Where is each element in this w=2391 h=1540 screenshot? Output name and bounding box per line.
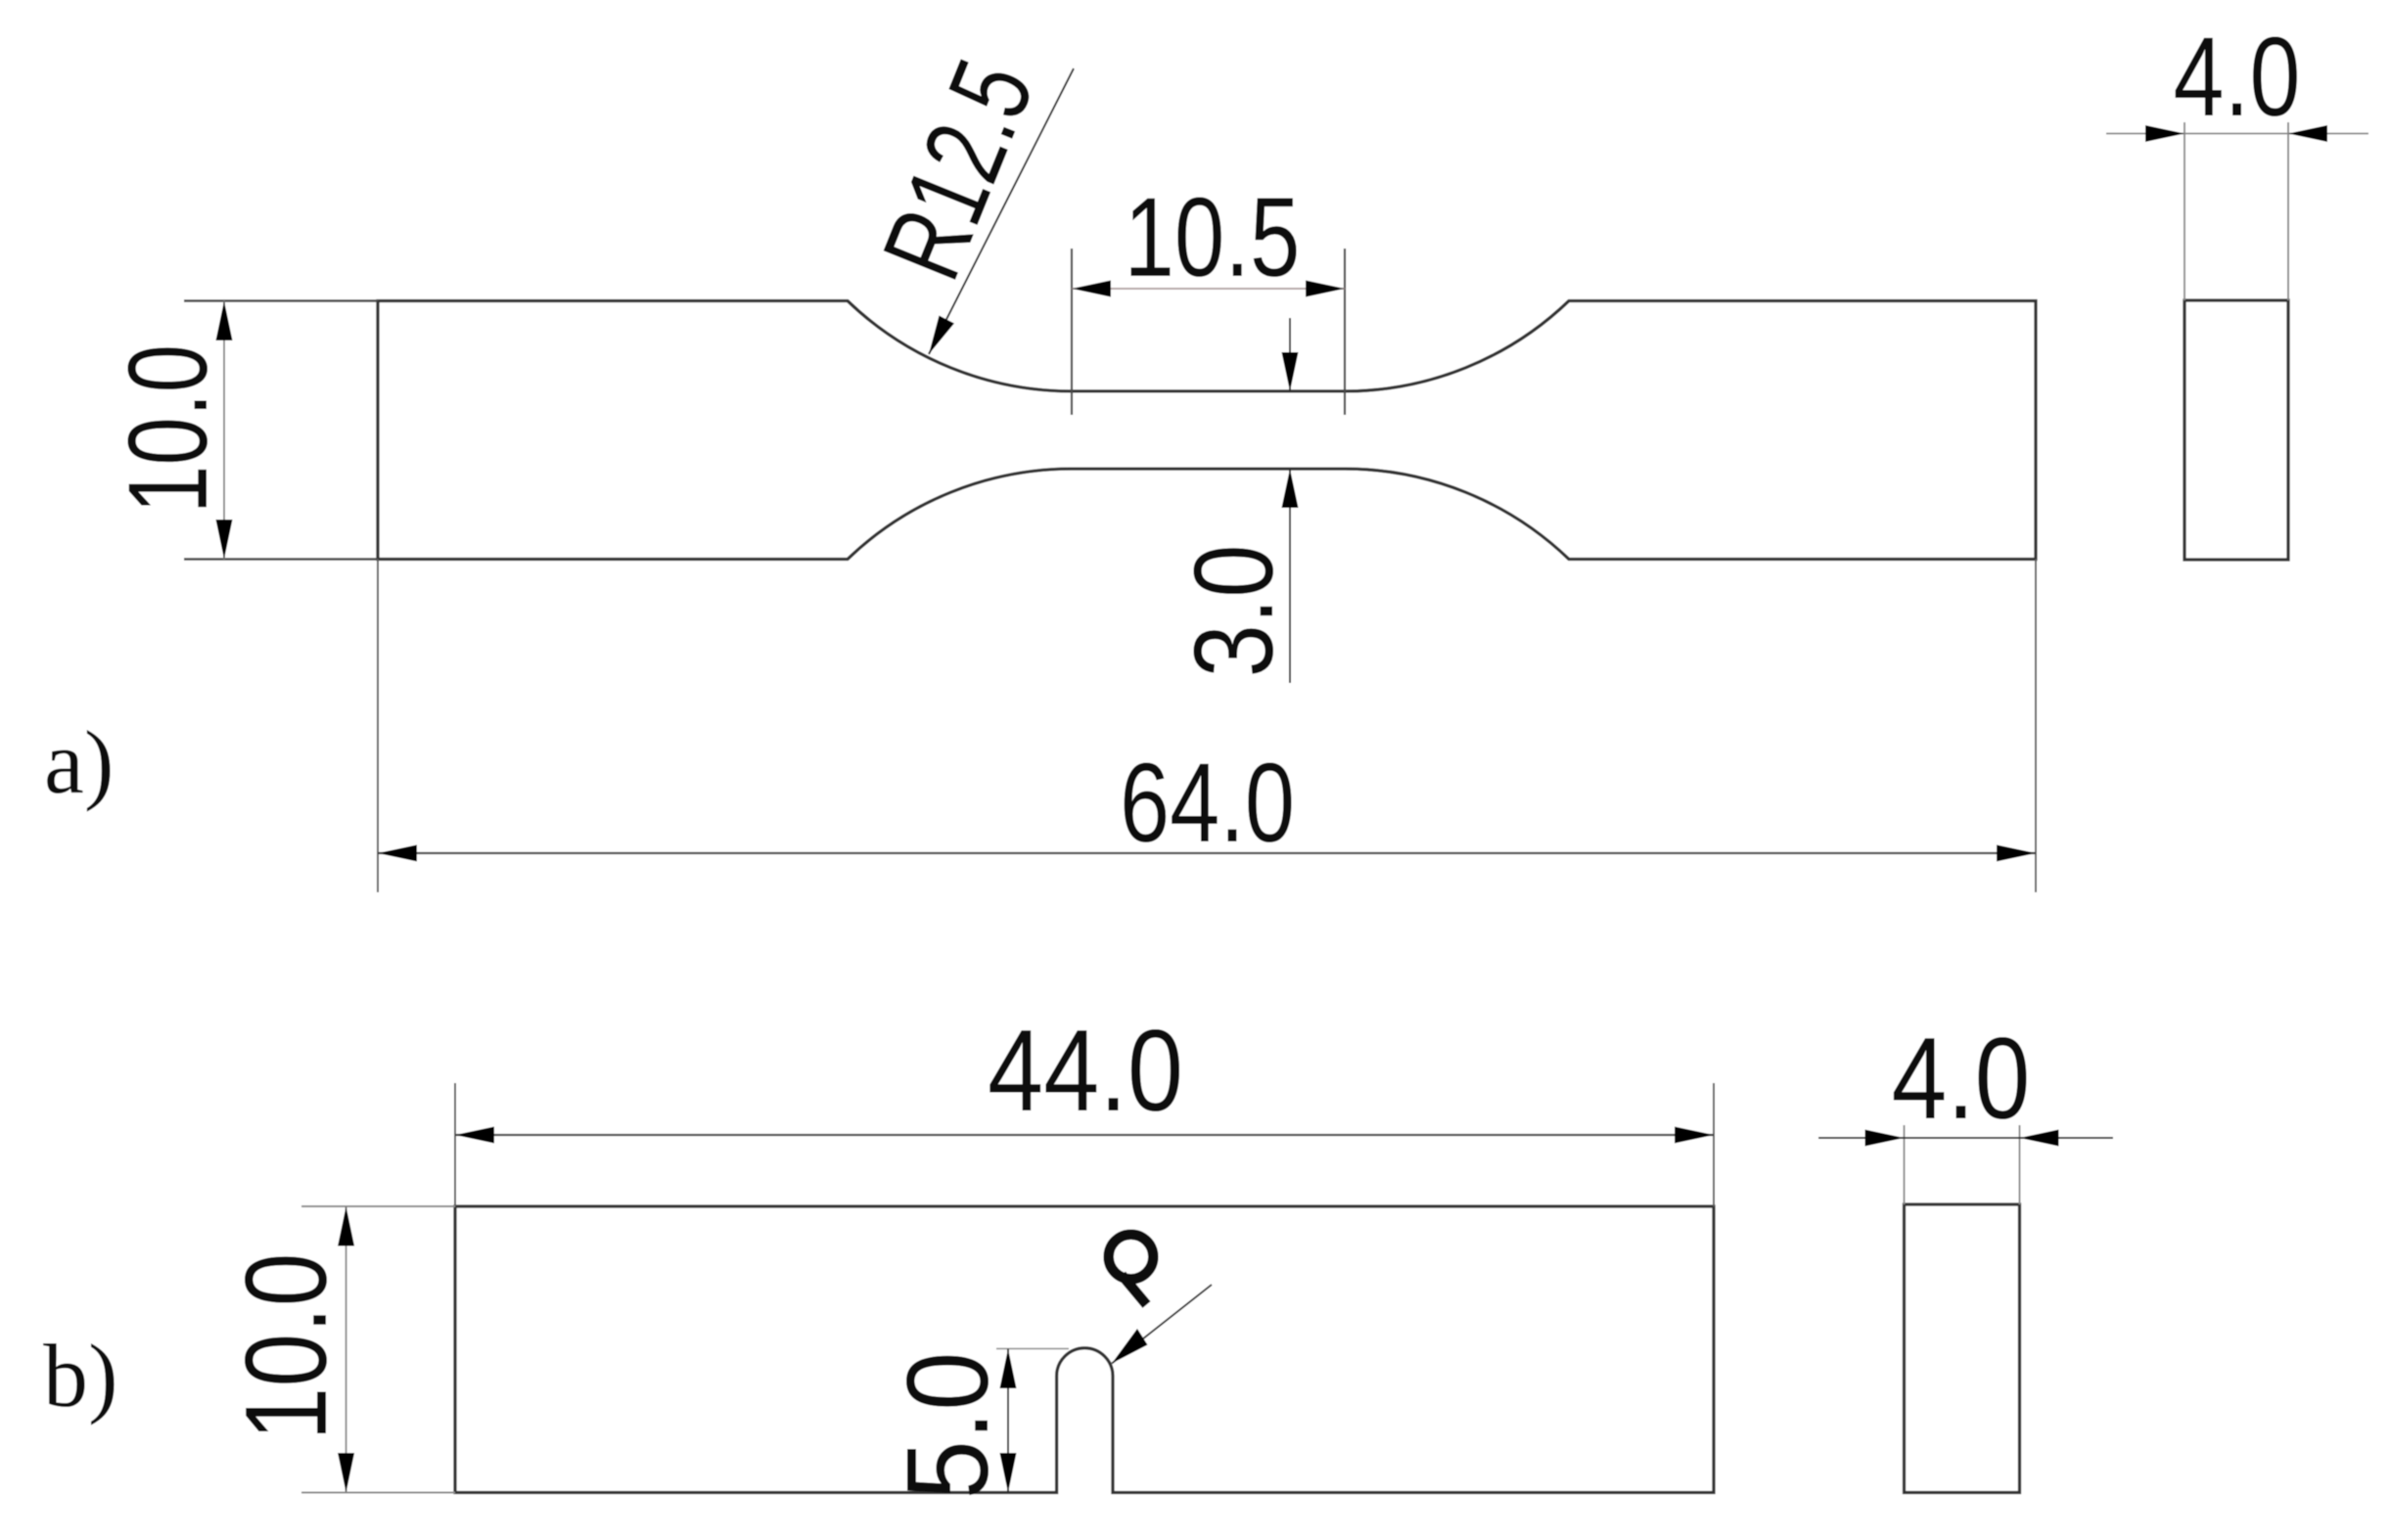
- svg-text:a): a): [44, 712, 114, 812]
- dim 10.0 A arrows: [216, 301, 233, 341]
- label rho tail: [1122, 1275, 1147, 1305]
- svg-text:4.0: 4.0: [1892, 1014, 2031, 1144]
- dim 64.0 extension lines: [377, 560, 379, 893]
- dim 10.5 arrows: [1072, 281, 1111, 297]
- dim 4.0 A arrows: [2145, 125, 2184, 142]
- leader rho line: [1112, 1285, 1212, 1364]
- dim 4.0 B dimension line: [1818, 1137, 2113, 1139]
- svg-text:b): b): [43, 1326, 118, 1426]
- dim 10.5 extension lines: [1071, 249, 1073, 415]
- svg-text:4.0: 4.0: [2174, 15, 2301, 140]
- dim 4.0 A dimension line: [2106, 133, 2368, 135]
- dim 10.0 A extension lines: [184, 299, 378, 302]
- svg-text:10.0: 10.0: [221, 1253, 351, 1441]
- side view A rectangle: [2184, 300, 2288, 560]
- dim 64.0 arrows: [378, 845, 417, 862]
- svg-text:3.0: 3.0: [1172, 545, 1297, 678]
- dim 4.0 B arrows: [1865, 1130, 1905, 1147]
- dim 44.0 arrows: [455, 1127, 494, 1144]
- dim 10.0 B extension lines: [301, 1205, 455, 1207]
- dim 10.0 B arrows: [338, 1206, 354, 1246]
- dim 44.0 extension lines: [454, 1083, 456, 1206]
- leader rho arrowhead: [1112, 1329, 1148, 1364]
- dim 10.0 A dimension line: [223, 301, 225, 560]
- svg-text:10.0: 10.0: [106, 344, 231, 514]
- dim 3.0 lower arrow line: [1289, 469, 1291, 683]
- dim 4.0 B extension lines: [1904, 1125, 1906, 1204]
- dim 5.0 dimension line: [1007, 1349, 1009, 1493]
- svg-text:10.5: 10.5: [1125, 175, 1301, 300]
- dim 3.0 upper arrow line: [1289, 318, 1291, 391]
- dim 44.0 dimension line: [455, 1134, 1714, 1136]
- dim 5.0 arrows: [1000, 1349, 1017, 1389]
- svg-text:5.0: 5.0: [883, 1352, 1013, 1500]
- leader R12.5 arrowhead: [929, 316, 954, 355]
- side view B rectangle: [1905, 1204, 2020, 1493]
- dim 4.0 A extension lines: [2184, 122, 2185, 300]
- leader R12.5 line: [929, 68, 1074, 354]
- dim 10.5 dimension line: [1072, 288, 1345, 290]
- dim 64.0 dimension line: [378, 852, 2036, 854]
- dim 5.0 extension tick: [996, 1348, 1069, 1350]
- specimen B notched bar outline: [455, 1206, 1714, 1493]
- dim 10.0 B dimension line: [345, 1206, 347, 1493]
- label rho bowl: [1109, 1235, 1154, 1280]
- specimen A dogbone outline: [378, 301, 2036, 560]
- svg-text:64.0: 64.0: [1120, 741, 1295, 866]
- svg-text:44.0: 44.0: [988, 1006, 1183, 1136]
